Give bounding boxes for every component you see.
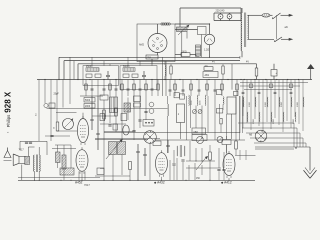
wire box right (175, 29, 177, 31)
coil bank caps (242, 92, 293, 93)
svg-text:928 X: 928 X (4, 91, 13, 113)
coil stack V3 (177, 145, 185, 157)
filter choke (196, 45, 201, 56)
V2 left components (56, 145, 67, 180)
mains plug arrow big (295, 147, 316, 178)
svg-text:2Ω: 2Ω (205, 66, 208, 68)
coil box1 (86, 68, 99, 71)
wire to V1 (51, 109, 77, 141)
screen var arrow (178, 25, 189, 35)
shield box 2 (120, 66, 157, 90)
tube AM2 (148, 34, 167, 53)
svg-text:1000: 1000 (297, 101, 299, 107)
wire rectifier top (176, 29, 198, 31)
cap forest 2 (170, 80, 237, 97)
svg-text:25000: 25000 (86, 66, 93, 68)
rectifier tube AZ1 (204, 34, 214, 44)
res mc2 (115, 108, 118, 116)
bottom bus (18, 179, 255, 181)
main bus (37, 79, 312, 81)
mains transformer secondary (247, 15, 250, 39)
svg-text:1000: 1000 (281, 101, 283, 107)
circle mc big (144, 131, 157, 144)
wire left vert 2 (44, 80, 46, 104)
shield box tuning indicator (137, 24, 175, 62)
tube V4 AF3 (223, 151, 235, 178)
box mc2 (84, 104, 95, 109)
svg-text:◆ A412: ◆ A412 (221, 180, 232, 184)
wire mains top (247, 14, 262, 16)
wire mains bottom (247, 38, 274, 40)
wire left cross 2 (56, 112, 77, 114)
antenna coil on box (161, 23, 171, 25)
electrolytic cap (271, 64, 278, 80)
bus junctions (44, 79, 299, 80)
grid caps (90, 96, 99, 150)
label V2 (75, 180, 83, 184)
label box1 (86, 66, 93, 68)
resistor 2ohm (204, 66, 213, 70)
IF1 top boxes (174, 93, 185, 100)
wire lamp box (214, 8, 241, 21)
wire mc h1 (80, 95, 103, 97)
capacitor box2 (142, 71, 146, 80)
output transformer sec (39, 155, 40, 172)
mid coils (189, 95, 206, 106)
V4 top components (222, 132, 237, 155)
wire mc v1 (104, 96, 116, 140)
svg-text:A452: A452 (75, 180, 83, 184)
tall former b (114, 97, 118, 113)
mid coil labels (191, 100, 202, 105)
wire heater line 1 (59, 57, 240, 79)
small circle mc (149, 102, 154, 113)
coil bank trimmers (249, 84, 293, 88)
svg-text:4V: 4V (246, 61, 249, 64)
wire left h136 (45, 135, 70, 136)
band wires top (240, 83, 308, 90)
svg-text:5000: 5000 (85, 100, 91, 102)
tube V1 AK2 (77, 113, 88, 145)
label 150 (196, 178, 201, 180)
wire left vert 1 (38, 80, 40, 142)
mains plug arrow top (289, 14, 294, 17)
band bus 2 (242, 128, 297, 147)
resistor box2 b (132, 74, 138, 77)
trimmer left (44, 103, 55, 108)
IF2 top boxes (216, 90, 238, 96)
box mc6 (100, 114, 105, 121)
pilot lamp La2 (227, 13, 232, 21)
wire switch feeds (240, 96, 243, 133)
speaker magnet (25, 156, 30, 164)
left rot label (36, 112, 38, 116)
wire box to bus (152, 24, 158, 64)
resistor 100ohm (181, 52, 190, 57)
svg-text:Philips: Philips (6, 115, 11, 128)
antenna glyph (4, 148, 12, 161)
cap mc1 (108, 125, 111, 126)
box bottom left2 (97, 168, 104, 175)
wire top link (20, 141, 47, 155)
wire mc v2 (122, 96, 146, 140)
resistor mid bottom (129, 162, 132, 170)
between tubes wires2 (177, 148, 224, 180)
wire x162 (163, 57, 167, 96)
cap mc2 (132, 111, 147, 131)
wire heater line 2 (64, 61, 240, 80)
tall former a (110, 97, 115, 113)
svg-text:2000: 2000 (85, 106, 91, 108)
wire bottom h2 (95, 169, 130, 177)
svg-text:1000: 1000 (265, 101, 267, 107)
wire 100ohm (175, 55, 196, 58)
osc res left (170, 64, 172, 80)
resistor box2 a (123, 74, 129, 77)
wire to rectifier anode (175, 23, 210, 34)
wire top supply (180, 8, 241, 27)
box mc7 (121, 114, 127, 121)
IF2 coil (223, 97, 224, 110)
mains plug arrow bottom (289, 38, 294, 41)
label box2 (123, 66, 130, 68)
label mains voltage (285, 26, 289, 29)
wave switch (255, 130, 267, 142)
label wave switch (249, 134, 253, 137)
wire mid verticals bottom (104, 140, 130, 180)
heater stubs (92, 57, 152, 65)
IF1 side coil (168, 96, 169, 140)
box mc1 (84, 98, 95, 103)
band bus 3 (246, 133, 300, 147)
AVC box 2 (192, 135, 207, 141)
mains switch bottom (274, 37, 289, 42)
mains switch top (272, 13, 289, 19)
svg-text:AM2: AM2 (139, 44, 145, 47)
wire long h139 (95, 139, 245, 142)
shield box 1 (83, 66, 119, 86)
small oval cap (123, 125, 129, 135)
svg-text:100Ω: 100Ω (181, 52, 187, 54)
band bus 4 (250, 138, 303, 147)
coil bank labels 2 (253, 118, 295, 124)
res forest 1 (85, 84, 160, 90)
caps mid bottom (136, 144, 146, 180)
wire mid verticals (187, 96, 243, 140)
wire to mains arrow (255, 147, 310, 171)
IF pair can b (118, 142, 126, 155)
speaker caps (25, 142, 32, 143)
svg-text:220-240: 220-240 (216, 10, 225, 13)
svg-text:4V: 4V (212, 61, 215, 64)
label 25pF (54, 94, 60, 96)
wire can2 feed (231, 64, 233, 90)
bottom junctions (34, 180, 230, 181)
resistor screen (177, 27, 188, 57)
resistor right HT (255, 68, 258, 80)
cap marks 1 (91, 89, 154, 90)
svg-text:50: 50 (54, 127, 56, 129)
svg-text:a/b: a/b (285, 26, 289, 29)
IF transformer 2 (227, 97, 236, 139)
tube V3 ABC1 (156, 150, 168, 177)
heater labels (212, 61, 249, 64)
res left 50 (54, 122, 59, 131)
wire mc h3 (95, 132, 160, 139)
svg-text:7017: 7017 (84, 183, 90, 187)
wire V2 area (52, 145, 76, 168)
wire switch1 down (149, 143, 151, 180)
trimmer cap b (198, 110, 202, 114)
resistor box1 b (95, 74, 101, 77)
bottom label (84, 183, 90, 187)
wire left vert 3 (50, 80, 52, 110)
between tubes caps (181, 160, 225, 180)
between tubes (186, 141, 215, 162)
trimmer circle mid2 (217, 137, 223, 143)
V2 box (60, 168, 74, 175)
svg-text:7017: 7017 (19, 150, 25, 152)
output transformer pri (34, 155, 35, 172)
AVC box (192, 128, 206, 134)
tube V2 AL4 (76, 147, 88, 174)
box mc4 (124, 103, 131, 112)
coil dots box (143, 120, 154, 127)
svg-text:◆ A432: ◆ A432 (154, 180, 165, 184)
output transformer core (36, 155, 37, 173)
label taps (240, 56, 242, 59)
label V4 (221, 180, 232, 184)
coil box2 (123, 68, 135, 71)
V3 top components (153, 140, 170, 153)
var arrow (106, 139, 123, 159)
box mc5 (134, 96, 141, 107)
trimmer cap a (193, 110, 197, 114)
wire left vert 4 (57, 80, 63, 123)
wire left cross 1 (47, 108, 168, 110)
osc coil left (165, 61, 166, 80)
resistor box1 a (86, 74, 92, 77)
mains transformer primary (240, 8, 243, 57)
osc small box (198, 27, 207, 58)
label lamp voltage (216, 10, 225, 13)
coil bank coils 1 (243, 97, 304, 107)
var arrow 2 (196, 156, 208, 170)
svg-text:25pF: 25pF (54, 94, 60, 96)
svg-text:AB1: AB1 (205, 74, 210, 77)
cap marks 2 (169, 90, 217, 91)
wire v4 switch (235, 150, 256, 160)
res mc1 (103, 110, 107, 119)
band bus 1 (238, 123, 294, 147)
svg-text:1000: 1000 (249, 101, 251, 107)
speaker horn (13, 154, 19, 166)
capacitor box1 (106, 71, 110, 80)
osc box right (203, 72, 218, 78)
IF pair can a (109, 142, 117, 155)
speaker driver (19, 156, 25, 163)
svg-text:50000: 50000 (123, 66, 130, 68)
V3 left wires (168, 140, 176, 180)
wire choke down (198, 45, 210, 58)
svg-text:1,2Ω: 1,2Ω (204, 49, 209, 52)
osc res right (222, 64, 224, 80)
res forest 2 (174, 84, 239, 90)
wire x70 (70, 57, 74, 104)
IF2 small box (216, 109, 223, 113)
coil bank labels 1 (249, 101, 299, 107)
coil bank verticals (243, 80, 303, 134)
wire speaker down (21, 165, 23, 181)
bottom bus 2 (18, 177, 100, 179)
IF2 resistor (220, 118, 222, 124)
cap forest 1 (86, 80, 158, 97)
label AM2 (139, 44, 145, 47)
pilot lamp La1 (218, 13, 223, 21)
fuse F1 (262, 14, 273, 18)
wire otp leads (35, 147, 40, 180)
res between (209, 145, 212, 180)
wire mc h2 (92, 116, 126, 124)
wire speaker top (28, 147, 34, 156)
label speaker (19, 150, 25, 152)
brand text (4, 91, 13, 133)
wire long h132 (104, 132, 240, 134)
ground triangle (307, 64, 314, 80)
box mc8 (113, 124, 118, 130)
variable cap left (63, 118, 74, 129)
svg-text:AB: AB (249, 134, 253, 137)
trimmer circle mid (197, 137, 204, 144)
label V3 (154, 180, 165, 184)
wire plug link (275, 15, 277, 39)
transformer core (244, 13, 245, 48)
coil bank coils 2 (247, 112, 296, 122)
band bus 5 (254, 143, 306, 147)
tube pin wires (79, 171, 229, 180)
svg-text:AB2: AB2 (193, 131, 198, 134)
label rectifier (204, 49, 209, 52)
wire HT line (78, 64, 257, 80)
box mc3 (100, 95, 108, 100)
resistor in box (146, 55, 158, 59)
IF transformer 1 (177, 104, 185, 139)
